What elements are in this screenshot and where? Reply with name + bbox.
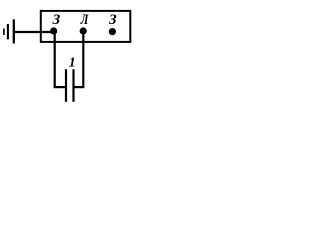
svg-text:З: З [108, 12, 117, 28]
svg-text:З: З [52, 12, 61, 28]
svg-text:1: 1 [69, 55, 76, 70]
svg-text:Л: Л [80, 12, 89, 28]
